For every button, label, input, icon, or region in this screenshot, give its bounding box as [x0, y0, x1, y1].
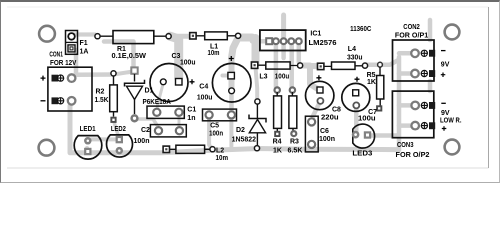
capacitor C5 — [203, 109, 237, 121]
wire riser to CON3 row2 — [399, 123, 414, 128]
wire L3 right to L4 left and C8 plus — [300, 66, 318, 90]
svg-text:C2: C2 — [141, 127, 150, 134]
wire CON1 row2 ground bus to bottom band — [70, 101, 72, 153]
wire LED1 top to LED2 top — [87, 137, 119, 141]
svg-text:1K: 1K — [367, 79, 376, 86]
svg-text:330u: 330u — [347, 55, 363, 62]
board outline bottom edge — [7, 167, 489, 169]
wire LED3 right to CON3 riser — [368, 133, 397, 138]
svg-text:L4: L4 — [348, 46, 356, 53]
regulator IC1 pads — [260, 30, 306, 50]
svg-text:FOR 12V: FOR 12V — [50, 60, 77, 67]
capacitor C4 — [212, 63, 251, 102]
connector CON1 — [48, 67, 92, 111]
LED2 — [107, 135, 133, 157]
wire L4 right to R5 top junction — [365, 62, 380, 67]
resistor R4 — [274, 87, 282, 137]
mounting hole top-left — [39, 26, 55, 42]
capacitor C6 — [305, 116, 318, 152]
svg-text:C4: C4 — [199, 84, 208, 91]
wire feed to IC1 pin1 — [252, 39, 266, 44]
inductor L3 — [251, 62, 302, 69]
plus mark C3 — [190, 79, 195, 84]
svg-text:100u: 100u — [180, 59, 196, 66]
plus mark C4 — [229, 56, 234, 61]
LED1 — [74, 136, 102, 160]
wire CON2 to CON3 right bus — [428, 81, 433, 91]
LED3 — [353, 124, 375, 148]
diode D2 1N5822 — [249, 99, 266, 151]
svg-text:100u: 100u — [358, 115, 376, 122]
svg-text:100u: 100u — [275, 73, 289, 80]
wire R1 left to D1 anode — [104, 42, 134, 68]
svg-text:CON1: CON1 — [49, 51, 63, 58]
mounting hole bottom-left — [39, 140, 55, 156]
wire L3 left to D2 top — [256, 67, 258, 99]
wire C3 minus to C1 left — [157, 83, 163, 112]
mounting hole top-right — [445, 25, 460, 40]
svg-text:100u: 100u — [197, 95, 213, 102]
plus mark C7 — [355, 77, 360, 82]
resistor R5 — [376, 62, 384, 111]
capacitor C8 — [306, 81, 334, 109]
wire C7 minus to LED3 left — [354, 105, 359, 134]
wire vertical feed to L3 left pad — [252, 38, 260, 64]
wire IC1 pin5 to L3 right — [297, 44, 302, 62]
svg-text:6.5K: 6.5K — [288, 147, 303, 154]
svg-text:R4: R4 — [273, 138, 282, 145]
svg-text:CON2: CON2 — [403, 24, 420, 31]
wire C4 square stub left — [223, 74, 229, 78]
svg-text:D1: D1 — [145, 88, 154, 95]
svg-text:CON3: CON3 — [397, 142, 414, 149]
svg-text:1K: 1K — [273, 147, 282, 154]
svg-text:1N5822: 1N5822 — [232, 136, 256, 143]
connector CON3 — [392, 91, 435, 138]
connector CON2 — [393, 40, 436, 81]
wire CON2 top bus riser — [428, 20, 433, 40]
svg-text:11360C: 11360C — [350, 26, 371, 33]
svg-text:C1: C1 — [187, 107, 196, 114]
wire bottom ground band — [72, 149, 397, 153]
svg-text:C5: C5 — [210, 122, 219, 129]
wire junction into CON2 — [380, 61, 398, 65]
resistor R3 — [289, 87, 297, 136]
minus mark CON1 — [41, 100, 46, 102]
plus mark CON2 — [441, 72, 446, 77]
wire D1 cathode pad to C2 left — [137, 119, 159, 128]
wire IC1 pin2 to R4 top — [274, 44, 279, 87]
svg-text:100n: 100n — [319, 136, 335, 143]
diode D1 P6KE18A — [125, 67, 145, 121]
svg-text:D2: D2 — [236, 127, 245, 134]
inductor L1 — [190, 32, 241, 40]
svg-text:FOR O/P2: FOR O/P2 — [396, 152, 430, 159]
svg-text:10m: 10m — [216, 155, 229, 162]
svg-text:LOW R.: LOW R. — [440, 118, 462, 125]
plus mark CON1 — [41, 76, 46, 81]
capacitor C3 — [150, 64, 188, 102]
svg-text:IC1: IC1 — [310, 31, 321, 38]
wire L1 right to vertical feed — [239, 34, 252, 42]
wire CON1 row1 to R2 top — [72, 75, 114, 79]
wire C5 left to L2 right — [209, 116, 212, 149]
board outline right edge — [488, 7, 490, 168]
fuse F1 — [66, 31, 78, 55]
resistor R1 — [95, 31, 171, 44]
wire IC1 pin4 to R3 top — [289, 44, 294, 87]
wire C1 right to C2 right — [178, 113, 181, 130]
svg-text:0.1E,0.5W: 0.1E,0.5W — [112, 53, 147, 60]
wire R1 right to L1 left — [168, 34, 192, 39]
resistor R2 — [110, 71, 118, 123]
svg-text:P6KE18A: P6KE18A — [143, 99, 171, 106]
svg-text:LED3: LED3 — [352, 151, 372, 158]
wire riser to CON2 row2 — [399, 71, 414, 76]
inductor L4 — [318, 62, 368, 70]
wire C5 right down to bottom band — [229, 116, 233, 146]
wire C4 plus through pads down to C5 right — [229, 60, 235, 90]
svg-text:9V: 9V — [441, 61, 450, 68]
wire riser to CON3 row1 — [399, 103, 415, 108]
svg-text:C8: C8 — [332, 106, 341, 113]
wire R1 right down to C3 plus pad — [170, 36, 179, 78]
svg-text:100n: 100n — [134, 138, 150, 145]
svg-text:R5: R5 — [367, 72, 376, 79]
svg-text:LM2576: LM2576 — [309, 40, 337, 47]
svg-text:LED2: LED2 — [111, 126, 126, 133]
minus mark CON2 — [441, 50, 446, 52]
svg-text:9V: 9V — [441, 110, 450, 117]
wire F1 bottom to CON1 row1 — [74, 50, 79, 73]
svg-text:1n: 1n — [187, 115, 195, 122]
wire C4 minus to C5 right pad — [229, 91, 234, 115]
svg-text:10m: 10m — [208, 50, 220, 57]
inductor L2 — [163, 145, 215, 153]
capacitor C2 — [150, 125, 186, 137]
wire LED1 bottom branch — [85, 148, 89, 153]
wire R2 top to D1 anode — [114, 72, 134, 75]
mounting hole bottom-right — [445, 140, 460, 155]
svg-text:100n: 100n — [209, 130, 223, 137]
svg-text:FOR O/P1: FOR O/P1 — [395, 32, 428, 39]
wire riser to CON2 row1 — [399, 51, 414, 56]
svg-text:220u: 220u — [321, 114, 339, 121]
plus mark C8 — [316, 75, 321, 80]
svg-text:LED1: LED1 — [80, 126, 96, 133]
wire IC1 pin3 down stub — [281, 44, 286, 58]
svg-text:F1: F1 — [80, 40, 88, 47]
capacitor C7 — [342, 83, 370, 111]
capacitor C1 — [147, 106, 184, 118]
svg-text:1.5K: 1.5K — [95, 97, 109, 104]
svg-text:R3: R3 — [290, 138, 299, 145]
plus mark CON3 — [442, 126, 447, 131]
svg-text:R2: R2 — [96, 88, 105, 95]
wire F1 to R1 left pad — [74, 32, 95, 36]
wire C6 bottom stub to band — [310, 144, 314, 148]
svg-text:L2: L2 — [216, 147, 224, 154]
svg-text:R1: R1 — [117, 46, 126, 53]
wire L1 right down to C4 plus — [232, 37, 239, 58]
board outline — [7, 6, 489, 8]
wire C8 minus to C6 top — [313, 101, 320, 121]
svg-text:L3: L3 — [259, 73, 267, 80]
wire R2 bottom to LED2 top — [114, 122, 119, 137]
minus mark CON3 — [441, 102, 446, 104]
svg-text:1A: 1A — [80, 48, 89, 55]
wire IC1 pin3 riser — [281, 15, 286, 38]
svg-text:C6: C6 — [320, 128, 329, 135]
wire output riser behind CON2 and CON3 — [397, 57, 402, 150]
